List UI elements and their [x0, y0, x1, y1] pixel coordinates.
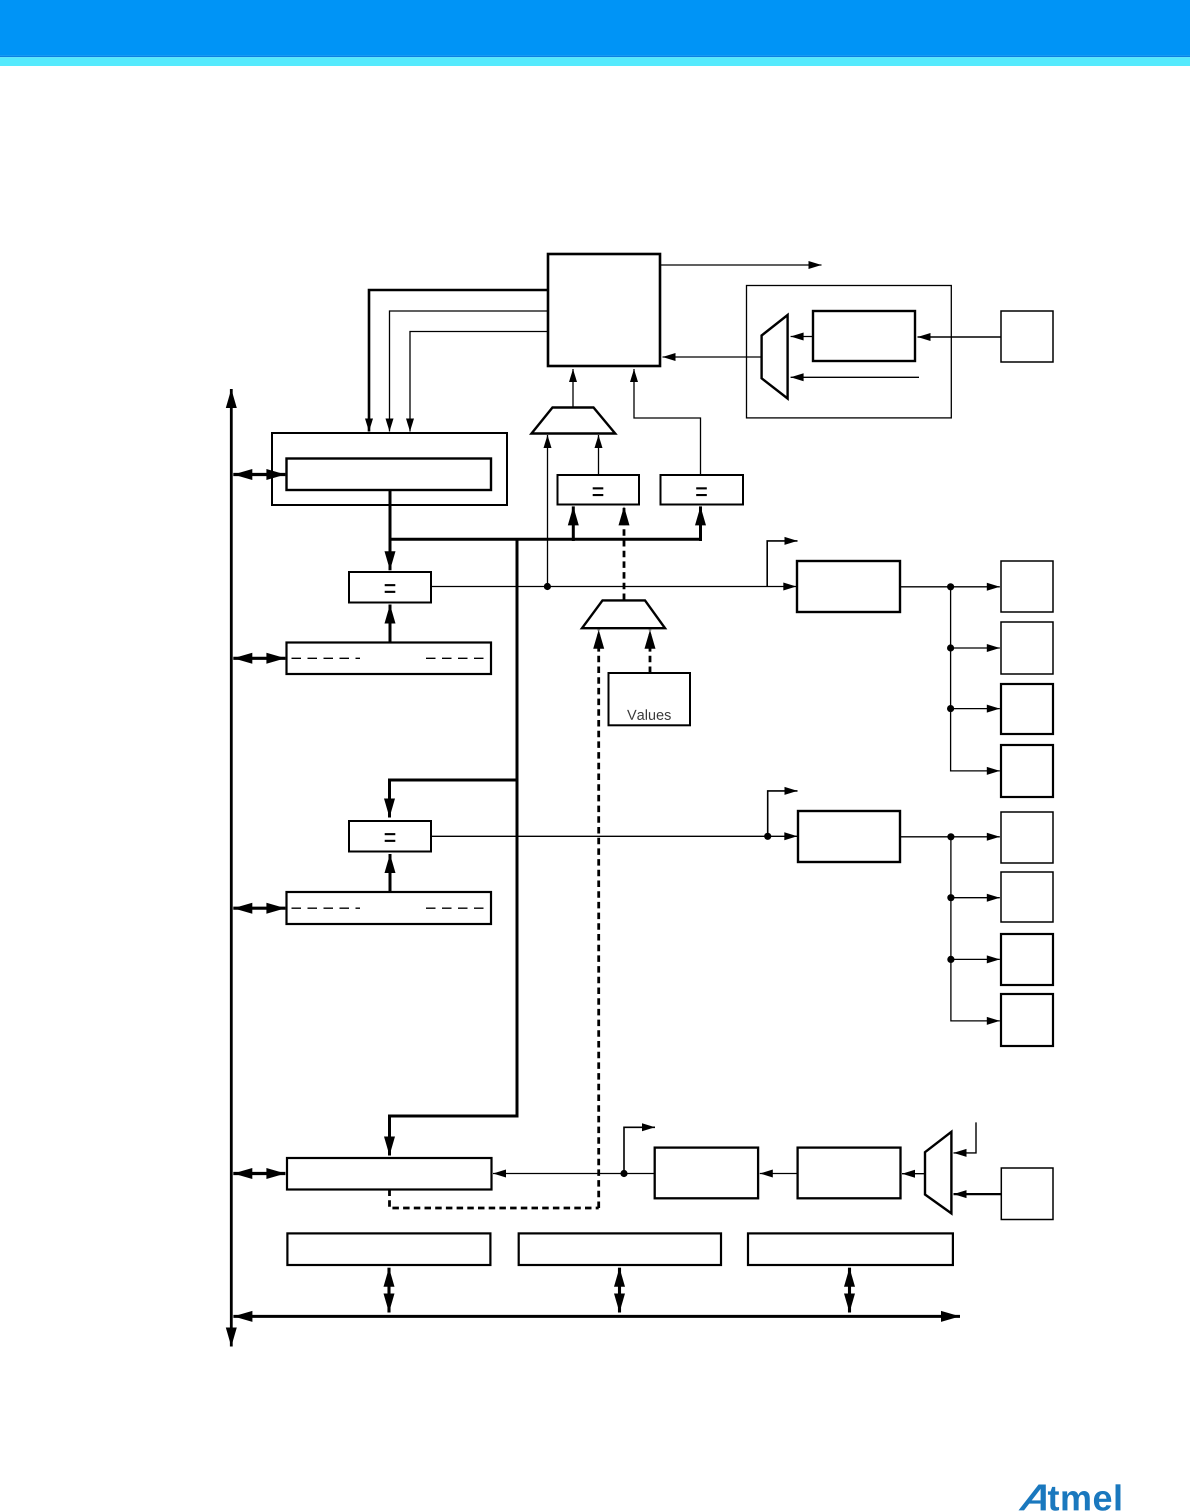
fixed TOP values mux: [582, 600, 665, 628]
pin box 3: [1001, 684, 1053, 734]
wire: OCRnA compare match up to top mux: [547, 435, 549, 587]
wire: ICPn pin to capture mux: [954, 1193, 1002, 1195]
control logic box: [548, 254, 660, 366]
Tn pin box: [1001, 311, 1053, 362]
wire: count bus branch to comparator D: [390, 780, 518, 818]
pin box 8: [1001, 994, 1053, 1046]
wire: data bus to OCRnA (double arrow): [233, 657, 285, 660]
pin box 6: [1001, 872, 1053, 922]
wire: analog comparator input stub: [954, 1122, 977, 1153]
wire: count value into comparator C: [389, 539, 392, 570]
wire: left vertical data bus (double arrow): [230, 389, 233, 1347]
dashed separator inside OCRnA: [292, 657, 361, 659]
edge detector (prescaler) box: [813, 311, 915, 361]
TCNTn counter inner box: [287, 459, 492, 491]
node: [947, 833, 954, 840]
header blue banner: [0, 0, 1190, 56]
node: [947, 894, 954, 901]
header cyan stripe: [0, 57, 1190, 66]
fixed TOP values box: [609, 673, 691, 725]
comparator box =A (TOP): [558, 475, 640, 505]
waveform generation box A: [797, 561, 900, 612]
wire: count control line: [390, 311, 549, 432]
comparator box =B (BOTTOM): [661, 475, 744, 505]
waveform generation box B: [798, 811, 900, 862]
pin box 4: [1001, 745, 1053, 797]
wire: comparator B output to control logic: [634, 369, 701, 475]
comparator box =C (OCRnA): [349, 572, 431, 603]
wire: branch to pin 6: [951, 897, 1000, 899]
node: junction on capture line: [620, 1170, 627, 1177]
wire: TCNTn value bus (thick) down and right: [389, 490, 392, 539]
wire: OCRnB to comparator D: [389, 854, 392, 892]
wire: branch to pin 7: [951, 958, 1000, 960]
wire: OCFnA interrupt flag arrow: [767, 541, 797, 587]
wire: comparator A output to top mux: [598, 435, 600, 475]
TCNTn register outer box: [272, 433, 507, 505]
noise canceler box: [798, 1148, 901, 1199]
Atmel logo: [1019, 1484, 1121, 1510]
wire: Tn pin to edge detector: [918, 336, 1002, 338]
pin box 2: [1001, 622, 1053, 674]
TCCRnC register box: [748, 1233, 953, 1265]
wire: bottom internal data bus (double arrow): [233, 1315, 960, 1318]
wire: data bus to OCRnB (double arrow): [233, 907, 285, 910]
node: [947, 644, 954, 651]
wire: clear control line (thick) from control logic to TCNTn: [369, 290, 548, 432]
node: junction on compare match A: [544, 583, 551, 590]
clock select mux: [762, 315, 788, 399]
wire: waveform B output: [900, 836, 1000, 838]
comparator box =D (OCRnB): [349, 821, 431, 852]
dashed separator inside OCRnB: [292, 907, 361, 909]
wire: count bus up into comparator B: [699, 506, 702, 541]
ICPn pin box: [1001, 1168, 1053, 1220]
wire: TCCRnC to bus (double arrow): [848, 1268, 851, 1313]
wire: OCFnB interrupt flag arrow: [768, 791, 798, 836]
node: [947, 956, 954, 963]
edge detector box: [655, 1148, 758, 1199]
wire: count bus long vertical to ICRn: [390, 539, 518, 1155]
wire: capture mux to noise canceler: [902, 1173, 925, 1175]
pin box 7: [1001, 934, 1053, 985]
wire: branch to pin 2: [951, 647, 1000, 649]
wire: dashed values to mux: [649, 630, 652, 673]
OCRnB register box: [287, 892, 492, 924]
TCCRnB register box: [519, 1233, 721, 1265]
input capture source mux: [925, 1132, 951, 1214]
wire: TCCRnB to bus (double arrow): [618, 1268, 621, 1313]
wire: compare match A to waveform generator 1: [431, 586, 796, 588]
wire: direction control line: [410, 332, 548, 432]
wire: branch to pin 3: [951, 708, 1000, 710]
wire: data bus to TCNTn (double arrow): [233, 473, 285, 476]
wire: edge detector to ICRn: [493, 1173, 655, 1175]
node: junction WG A out: [947, 583, 954, 590]
wire: data bus to ICRn (double arrow): [233, 1172, 285, 1175]
OCRnA register box: [287, 643, 492, 675]
wire: TCCRnA to bus (double arrow): [387, 1268, 390, 1313]
node: [947, 705, 954, 712]
wire: vertical distribution to pins 6-8: [951, 837, 1000, 1021]
wire: waveform A output: [900, 586, 1000, 588]
TCCRnA register box: [287, 1233, 490, 1265]
wire: top mux output to control logic: [572, 369, 574, 407]
wire: dashed TOP value into comparator A: [623, 506, 626, 600]
wire: TOVn interrupt request arrow: [660, 264, 822, 266]
OCnB pin box 5: [1001, 812, 1053, 863]
wire: noise canceler to edge detector: [760, 1173, 798, 1175]
wire: clk into control logic: [663, 356, 762, 358]
wire: prescaler clock into mux: [791, 376, 919, 378]
wire: edge detector to mux: [791, 336, 813, 338]
wire: ICFn interrupt flag arrow: [624, 1127, 655, 1173]
wire: vertical distribution to pins 2-4: [951, 587, 1000, 771]
wire: dashed from ICRn bottom: [390, 1190, 599, 1209]
clock select outer box: [747, 286, 952, 418]
node: junction on compare match B: [764, 833, 771, 840]
wire: count bus up into comparator A: [572, 506, 575, 541]
wire: compare match B to waveform generator 2: [431, 835, 797, 837]
OCnA pin box 1: [1001, 561, 1053, 612]
wire: OCRnA to comparator C: [389, 605, 392, 643]
ICRn register box: [287, 1158, 492, 1190]
top mux (TOP/BOTTOM select): [532, 408, 616, 434]
wire: dashed ICRn/OCRnA TOP to mux: [597, 630, 600, 1208]
